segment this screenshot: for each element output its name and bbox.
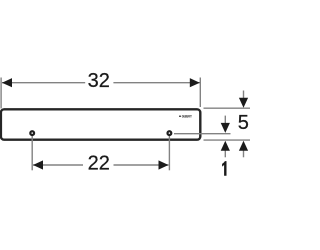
svg-text:22: 22	[88, 152, 110, 174]
svg-text:5: 5	[238, 112, 249, 134]
svg-text:32: 32	[88, 70, 110, 92]
svg-text:GEBERIT: GEBERIT	[182, 114, 193, 118]
